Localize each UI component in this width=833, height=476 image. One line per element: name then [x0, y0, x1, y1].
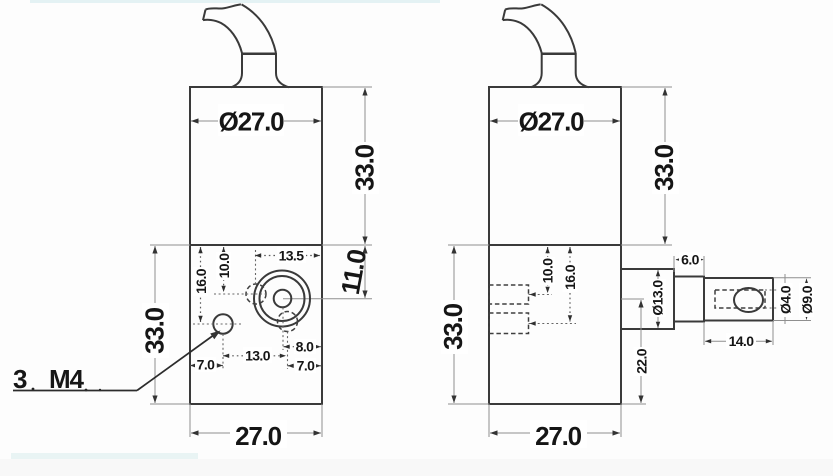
svg-text:16.0: 16.0 — [193, 268, 209, 294]
svg-text:13.0: 13.0 — [245, 348, 271, 364]
svg-text:Ø9.0: Ø9.0 — [799, 285, 815, 314]
svg-text:7.0: 7.0 — [197, 357, 215, 373]
svg-text:Ø27.0: Ø27.0 — [519, 107, 585, 137]
svg-text:22.0: 22.0 — [634, 348, 650, 374]
svg-text:14.0: 14.0 — [729, 333, 755, 349]
svg-text:7.0: 7.0 — [297, 358, 315, 374]
svg-text:33.0: 33.0 — [140, 307, 170, 354]
svg-text:10.0: 10.0 — [540, 258, 556, 284]
svg-text:13.5: 13.5 — [279, 248, 305, 264]
svg-text:8.0: 8.0 — [296, 339, 314, 355]
svg-text:6.0: 6.0 — [681, 252, 699, 268]
svg-text:27.0: 27.0 — [235, 421, 282, 451]
svg-text:16.0: 16.0 — [562, 264, 578, 290]
svg-text:M4: M4 — [49, 364, 84, 394]
svg-text:Ø4.0: Ø4.0 — [777, 285, 793, 314]
svg-text:10.0: 10.0 — [216, 253, 232, 279]
svg-text:Ø27.0: Ø27.0 — [219, 107, 285, 137]
svg-text:Ø13.0: Ø13.0 — [650, 280, 666, 316]
svg-text:33.0: 33.0 — [438, 303, 468, 350]
svg-text:33.0: 33.0 — [649, 144, 679, 191]
svg-text:33.0: 33.0 — [350, 144, 380, 191]
svg-text:3: 3 — [13, 364, 27, 394]
svg-text:27.0: 27.0 — [535, 421, 582, 451]
